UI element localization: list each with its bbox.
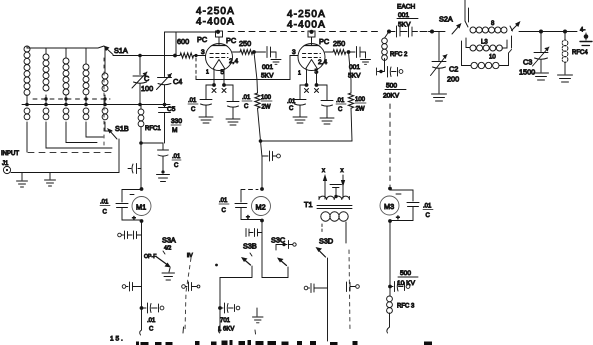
svg-text:+: + (396, 215, 400, 222)
svg-text:4/2: 4/2 (164, 246, 171, 252)
resistor 600 (grid to bias line) (176, 32, 189, 55)
svg-text:EACH: EACH (397, 4, 416, 11)
HV line M3 to RFC3 (388, 221, 392, 296)
svg-text:S3B: S3B (243, 242, 257, 251)
inductor L4 (tank, 10 turns) (462, 41, 512, 69)
inductor L1C (upper winding) (63, 48, 69, 105)
svg-text:1 6KV: 1 6KV (218, 327, 234, 333)
capacitor C5 330 (159, 105, 183, 144)
svg-text:2W: 2W (356, 107, 365, 113)
inductor L1D (upper winding) (83, 48, 89, 105)
svg-text:C3: C3 (523, 58, 532, 67)
svg-text:x: x (322, 168, 325, 174)
switch S3A (with contacts) (144, 236, 193, 268)
bias feed line below M1 (140, 221, 144, 335)
choke RFC2 (plate) (382, 32, 408, 72)
resistor PC (V2 screen) (325, 50, 350, 55)
inductor L1E (lower turns below tap) (102, 108, 108, 120)
svg-text:100: 100 (141, 84, 153, 93)
svg-text:C4: C4 (173, 77, 182, 86)
capacitor .01 (bias bypass) (158, 150, 182, 173)
variable capacitor C1 100 (tune) (132, 56, 153, 105)
svg-text:1500: 1500 (519, 68, 535, 77)
svg-text:.01: .01 (172, 154, 181, 160)
choke RFC4 (output safety) (558, 32, 589, 83)
switch S2B wiper (510, 21, 521, 31)
svg-text:5: 5 (221, 69, 225, 76)
svg-text:C: C (222, 208, 227, 214)
S1A contact arc (dashed) with contact dots (33, 97, 110, 100)
svg-text:C: C (338, 107, 343, 113)
svg-text:T1: T1 (304, 200, 313, 209)
svg-text:200: 200 (447, 75, 459, 84)
svg-text:001: 001 (262, 64, 273, 71)
tube V1 (4-250A/4-400A) (201, 30, 238, 93)
dashed linkage S3D (349, 250, 350, 332)
svg-text:C: C (191, 107, 196, 113)
svg-text:L3: L3 (481, 40, 488, 46)
inductor L2 (tank, 8 turns) (465, 21, 507, 33)
svg-text:1 5 .: 1 5 . (110, 336, 123, 343)
cut-off caption text row (bottom edge) (136, 340, 432, 345)
svg-text:S3D: S3D (319, 237, 333, 246)
svg-text:.01: .01 (100, 200, 109, 206)
staircase wires coil bottoms to S1B contacts (105, 122, 112, 131)
svg-text:5: 5 (315, 69, 319, 76)
switch S3B (with series caps) (215, 229, 262, 278)
svg-text:PC: PC (226, 36, 236, 45)
svg-text:4-400A: 4-400A (287, 20, 326, 31)
svg-text:250: 250 (239, 39, 251, 48)
svg-text:S1B: S1B (115, 124, 129, 133)
wire J1 to S1B wiper (11, 139, 119, 173)
svg-text:RFC1: RFC1 (145, 126, 161, 132)
inductor L1C (lower turns below tap) (63, 108, 69, 120)
svg-text:C: C (426, 213, 431, 219)
svg-text:PC: PC (319, 37, 329, 46)
resistor PC (V1 screen) (233, 50, 256, 55)
svg-text:701: 701 (220, 318, 231, 324)
tank coil upper lead (to top edge) (465, 0, 469, 22)
svg-text:S2A: S2A (439, 15, 453, 24)
switch S1 ganged-shaft dashed linkage (28, 58, 113, 153)
svg-text:4-400A: 4-400A (196, 17, 235, 28)
feedthrough capacitor (bias line, lower) (122, 282, 141, 291)
svg-text:C: C (144, 74, 149, 83)
dashed HV feed to M3 (389, 104, 391, 186)
svg-text:S3A: S3A (162, 236, 176, 245)
svg-text:330: 330 (171, 118, 182, 125)
capacitor .01 (V2 fil bypass right) (317, 85, 347, 124)
tank output wire (519, 30, 577, 34)
svg-text:2W: 2W (262, 105, 271, 111)
svg-text:001: 001 (398, 12, 409, 19)
resistor 100 2W (V2 screen dropping) (348, 52, 366, 141)
dashed linkage S3A (185, 258, 191, 331)
switch S1B wiper (107, 124, 129, 139)
label PC 250 (V1 screen parasitic) (226, 36, 251, 48)
screen bus wire (259, 139, 352, 143)
label EACH .001 5KV (397, 4, 418, 29)
svg-text:+: + (246, 214, 250, 221)
capacitor .001 5KV (V2 screen bypass) (348, 47, 371, 80)
svg-text:.01: .01 (242, 95, 251, 101)
svg-text:+: + (132, 215, 136, 222)
svg-text:C: C (244, 104, 249, 110)
inductor L1B (upper winding) (43, 48, 49, 105)
svg-text:INPUT: INPUT (1, 151, 19, 157)
wire end hooks at bottom (183, 327, 220, 333)
dashed screen-compartment line at V1 grid (195, 58, 197, 75)
svg-text:OP-F: OP-F (144, 254, 156, 260)
svg-text:PC: PC (197, 35, 207, 44)
svg-text:S1A: S1A (114, 46, 128, 55)
filament x-lead arrows to tubes (322, 168, 345, 199)
wire S3C to M2 line (262, 221, 288, 278)
ground (on input line, second) (45, 173, 56, 187)
svg-text:J1: J1 (2, 161, 9, 167)
inductor L3 (tank) (466, 36, 512, 51)
inductor L1B (lower turns below tap) (43, 108, 49, 120)
ground (S3A) (162, 268, 175, 280)
grid-line feedthrough capacitor near RFC1 (128, 164, 141, 174)
capacitor .01 (V1 fil bypass left) (188, 85, 214, 123)
neutralizing wire up to plate line (165, 31, 219, 33)
capacitor .001 1.6KV (bias line) (218, 300, 240, 333)
choke RFC1 (138, 105, 161, 189)
svg-text:x: x (341, 168, 344, 174)
plate blocking capacitors (each .001 5KV) (387, 26, 445, 37)
feedthrough capacitor (S3A linkage line) (182, 282, 200, 291)
svg-text:20KV: 20KV (383, 93, 400, 100)
svg-text:2,4: 2,4 (229, 58, 238, 65)
resistor 100 2W (V1 screen dropping) (254, 52, 272, 189)
svg-text:100: 100 (261, 95, 272, 101)
label PC 250 (V2 screen parasitic) (319, 37, 345, 48)
resistor (grid, in series) (180, 53, 194, 58)
svg-text:C5: C5 (167, 106, 176, 113)
svg-text:RFC 3: RFC 3 (397, 304, 415, 310)
svg-text:C: C (103, 210, 108, 216)
meter M2 (screen current) (219, 187, 271, 222)
input connector J1 (1, 151, 19, 174)
svg-text:500: 500 (400, 270, 411, 277)
choke RFC3 (387, 296, 415, 333)
svg-text:C: C (149, 327, 154, 333)
inductor L1A (lower turns below tap) (24, 108, 30, 120)
tube V2 (4-250A/4-400A) (292, 30, 327, 93)
svg-text:.01: .01 (287, 99, 296, 105)
capacitor .01 (V1 fil bypass right) (224, 85, 252, 125)
transformer T1 (filament) (304, 185, 352, 222)
grid input wire S1A to V1 grid (113, 54, 206, 58)
screen feedthrough terminal capacitor (262, 151, 280, 161)
svg-text:4-: 4- (580, 28, 585, 34)
feedthrough capacitors (bias line, upper) (118, 231, 142, 239)
capacitor 500 10KV (HV bypass feedthrough) (390, 270, 418, 292)
wire M2/S3B to bias bus (220, 278, 252, 301)
svg-text:3: 3 (292, 49, 296, 56)
output connector J2 (580, 28, 592, 46)
switch S3D (316, 222, 347, 341)
capacitor .01 (bias line bypass) (142, 303, 164, 333)
svg-text:C: C (289, 106, 294, 112)
svg-text:RFC4: RFC4 (572, 50, 588, 56)
svg-text:.01: .01 (423, 204, 432, 210)
switch S1A wiper (104, 46, 128, 56)
label 4-250A / 4-400A (V2) (287, 9, 326, 31)
svg-text:3: 3 (201, 49, 205, 56)
capacitor 500 20KV (HV feedthrough) (377, 67, 407, 100)
svg-text:C2: C2 (449, 65, 458, 74)
svg-text:M: M (172, 127, 178, 134)
switch S2A wiper (439, 15, 462, 35)
inductor L1E (upper winding) (102, 48, 108, 105)
svg-text:2,4: 2,4 (318, 59, 327, 66)
svg-text:250: 250 (333, 39, 345, 48)
svg-text:.01: .01 (188, 98, 197, 104)
svg-text:100: 100 (355, 97, 366, 103)
variable capacitor C3 1500 (load) (519, 32, 549, 81)
svg-text:10: 10 (489, 55, 496, 61)
svg-text:600: 600 (177, 37, 189, 46)
svg-text:M2: M2 (256, 203, 266, 212)
meter M1 (grid current) (100, 187, 151, 223)
svg-text:500: 500 (386, 83, 397, 90)
svg-text:1: 1 (206, 70, 209, 76)
ground (below S3B/S3C) (253, 308, 264, 334)
svg-text:.01: .01 (336, 98, 345, 104)
filament/grid return bus (196, 56, 298, 80)
plate line dashed segments (228, 31, 382, 33)
svg-text:RFC 2: RFC 2 (390, 52, 408, 58)
svg-text:C: C (174, 163, 179, 169)
svg-text:4-250A: 4-250A (196, 6, 235, 17)
capacitor .01 (V2 fil bypass left) (287, 85, 307, 123)
svg-text:M3: M3 (384, 202, 394, 211)
bias node wire and dot (139, 141, 163, 149)
inductor L1A (upper winding) (24, 46, 30, 105)
svg-text:001: 001 (349, 64, 360, 71)
ground (on input line, left) (17, 173, 28, 188)
svg-text:5KV: 5KV (261, 73, 274, 80)
svg-text:4-250A: 4-250A (287, 9, 326, 20)
switch S3C (with cap) (271, 236, 296, 266)
svg-text:.01: .01 (219, 198, 228, 204)
svg-text:M1: M1 (136, 203, 146, 212)
svg-text:llV: llV (187, 253, 193, 259)
feedthrough capacitor (S3D line) (347, 282, 360, 292)
feedthrough capacitor (S3D wiper line) (304, 284, 327, 293)
coil bank top bus wire (27, 46, 104, 48)
label 4-250A / 4-400A (V1) (196, 6, 235, 28)
meter M3 (plate current) (380, 187, 433, 223)
variable capacitor C4 (neutralizing) (157, 32, 183, 105)
svg-text:.01: .01 (147, 318, 156, 324)
capacitor .001 5KV (V1 screen bypass) (254, 47, 281, 80)
grid tap bus wire (22, 103, 170, 107)
svg-text:1: 1 (298, 71, 301, 77)
variable capacitor C2 200 (tune) (431, 32, 460, 102)
inductor L1D (lower turns below tap) (83, 108, 89, 120)
ground (bias bypass) (157, 170, 170, 181)
